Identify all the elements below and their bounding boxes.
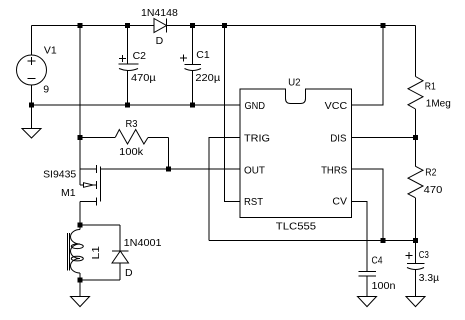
svg-text:D: D [156, 35, 164, 47]
svg-text:C2: C2 [133, 50, 147, 62]
wire top rail left (V1 to D anode) [32, 25, 155, 27]
wire TRIG to bottom node [209, 138, 240, 241]
svg-text:RST: RST [244, 196, 264, 208]
svg-text:OUT: OUT [244, 164, 266, 176]
svg-text:D: D [125, 267, 133, 279]
svg-text:VCC: VCC [325, 100, 348, 112]
ground (V1) [22, 129, 41, 139]
diode D 1N4001 [80, 225, 162, 280]
wire supply vertical x=80 (rail to MOSFET) [79, 26, 81, 186]
diode D 1N4148 [141, 7, 178, 47]
node C2 top junction [125, 23, 130, 28]
svg-text:100k: 100k [119, 146, 144, 158]
op-amp U2 TLC555 body [240, 77, 352, 233]
svg-text:1N4148: 1N4148 [141, 7, 178, 19]
wire drain to 1N4001 [80, 224, 120, 226]
resistor R2 [408, 138, 442, 241]
svg-text:THRS: THRS [321, 164, 347, 176]
capacitor C4 [359, 255, 396, 297]
node M1 drain junction [78, 223, 83, 228]
node V1-minus junction [29, 103, 34, 108]
node C1 top junction [190, 23, 195, 28]
wire DIS to R1/R2 node [352, 137, 416, 139]
node C2 bottom junction [125, 103, 130, 108]
node C1 bottom junction [190, 103, 195, 108]
wire VCC to rail [352, 26, 384, 106]
node VCC rail junction [381, 23, 386, 28]
inductor L1 [68, 225, 102, 280]
resistor R3 [80, 118, 169, 169]
node R3/OUT junction [166, 167, 171, 172]
svg-text:GND: GND [245, 100, 266, 112]
capacitor C2 [119, 26, 156, 106]
svg-text:1Meg: 1Meg [426, 98, 451, 110]
capacitor C3 [406, 241, 440, 297]
svg-text:R1: R1 [425, 81, 436, 93]
svg-text:R2: R2 [425, 167, 436, 179]
svg-text:TRIG: TRIG [244, 133, 270, 145]
svg-text:C4: C4 [372, 255, 383, 267]
wire top rail right (D cathode to R1) [167, 25, 416, 27]
wire bottom node rail (TRIG to R2/C3) [209, 240, 416, 242]
node DIS/R1/R2 junction [413, 135, 418, 140]
svg-text:9: 9 [43, 84, 49, 96]
svg-text:V1: V1 [44, 45, 57, 57]
node L1 bottom junction [78, 278, 83, 283]
svg-text:100n: 100n [372, 280, 396, 292]
svg-text:L1: L1 [90, 246, 102, 260]
svg-text:C3: C3 [419, 249, 429, 261]
node supply-rail junction [78, 23, 83, 28]
wire THRS down to bottom node [352, 169, 384, 241]
svg-text:TLC555: TLC555 [276, 221, 316, 233]
ground (L1) [71, 297, 90, 307]
ground (C4) [358, 297, 377, 307]
transistor M1 SI9435 [43, 165, 100, 225]
wire CV to C4 [352, 202, 368, 272]
resistor R1 [408, 26, 451, 138]
svg-text:SI9435: SI9435 [43, 168, 76, 180]
wire ground rail (V1 to U2 GND) [32, 104, 241, 106]
wire ground stem V1 [31, 105, 33, 129]
svg-text:1N4001: 1N4001 [124, 237, 162, 249]
node THRS junction [381, 238, 386, 243]
wire RST to VCC rail [225, 26, 241, 202]
svg-text:220µ: 220µ [195, 72, 220, 84]
svg-text:CV: CV [332, 196, 347, 208]
svg-text:R3: R3 [126, 118, 138, 130]
svg-text:U2: U2 [288, 77, 301, 89]
svg-text:3.3µ: 3.3µ [419, 272, 439, 284]
svg-text:DIS: DIS [330, 133, 346, 145]
svg-text:C1: C1 [196, 49, 210, 61]
node R2/C3 junction [413, 238, 418, 243]
node RST rail junction [222, 23, 227, 28]
svg-text:470: 470 [424, 184, 443, 196]
svg-text:M1: M1 [61, 187, 76, 199]
node R3 left junction [78, 135, 83, 140]
ground (C3) [406, 297, 425, 307]
svg-text:470µ: 470µ [131, 72, 156, 84]
voltage source V1 [17, 26, 57, 106]
wire ground stem L1 [79, 280, 81, 297]
wire OUT line (gate to U2 OUT) [101, 168, 241, 170]
capacitor C1 [180, 26, 220, 106]
